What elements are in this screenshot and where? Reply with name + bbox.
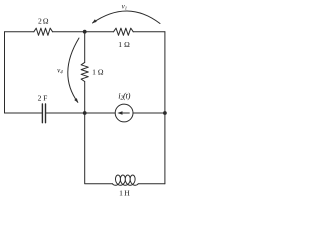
svg-text:2F: 2F bbox=[38, 94, 48, 103]
svg-text:v4: v4 bbox=[57, 67, 63, 76]
wire right branch bbox=[164, 32, 166, 184]
wire top-right segment bbox=[133, 31, 165, 33]
svg-text:2Ω: 2Ω bbox=[38, 17, 49, 26]
v4 arc arrowhead bbox=[74, 98, 78, 103]
wire middle branch to bottom corner bbox=[85, 113, 113, 184]
wire bottom-right segment bbox=[138, 183, 165, 185]
wire capacitor right lead bbox=[46, 112, 84, 114]
node dot right bbox=[163, 111, 167, 115]
node dot middle bbox=[83, 111, 87, 115]
wire mid node to source bbox=[85, 112, 116, 114]
current source arrow shaft bbox=[122, 112, 130, 114]
wire source to right node bbox=[133, 112, 165, 114]
svg-text:1Ω: 1Ω bbox=[92, 67, 104, 76]
wire left branch bbox=[4, 32, 6, 113]
wire top middle segment bbox=[53, 31, 114, 33]
current source arrowhead bbox=[117, 111, 122, 115]
svg-text:i2(t): i2(t) bbox=[118, 90, 130, 101]
resistor 1 ohm horizontal bbox=[114, 28, 134, 35]
wire middle branch upper lead bbox=[84, 32, 86, 63]
resistor 2 ohm bbox=[34, 28, 53, 35]
capacitor 2F plates bbox=[42, 104, 45, 123]
v1 arc arrowhead bbox=[92, 19, 97, 23]
wire top-left segment bbox=[5, 31, 34, 33]
svg-text:v1: v1 bbox=[122, 3, 127, 11]
current source i2 circle bbox=[115, 104, 133, 122]
wire capacitor left lead bbox=[5, 112, 42, 114]
resistor 1 ohm vertical bbox=[81, 62, 88, 81]
wire middle branch lower lead bbox=[84, 82, 86, 114]
svg-text:1H: 1H bbox=[119, 189, 130, 198]
node dot top bbox=[83, 30, 87, 34]
voltage arc v1 bbox=[93, 11, 161, 24]
svg-text:1Ω: 1Ω bbox=[118, 40, 130, 49]
voltage arc v4 bbox=[68, 38, 79, 102]
inductor 1H loops bbox=[112, 175, 138, 185]
